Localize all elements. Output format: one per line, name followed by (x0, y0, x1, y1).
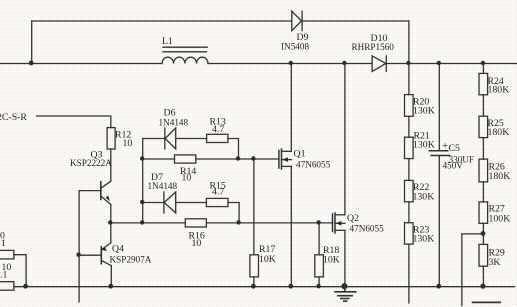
svg-text:10: 10 (182, 173, 192, 184)
svg-text:1N4148: 1N4148 (148, 181, 178, 191)
svg-text:KSP2222A: KSP2222A (70, 158, 112, 168)
junction dot emitters (108, 220, 112, 224)
resistor R27 (479, 202, 488, 223)
diode D6 1N4148 (165, 128, 176, 149)
wire D6 to R13 (176, 138, 207, 140)
resistor R25 (479, 116, 488, 137)
wire R20-R23 column verticals (408, 64, 410, 95)
svg-text:3K: 3K (489, 257, 501, 268)
wire R20-R21 (408, 116, 410, 137)
junction dot bottom rail Q4 collector (108, 284, 113, 289)
junction dot gate bus R15 drop (236, 220, 240, 224)
wire top freewheel loop horizontal left segment (32, 20, 292, 22)
resistor R13 (207, 134, 228, 142)
svg-text:47N6055: 47N6055 (350, 224, 385, 234)
resistor R29 (479, 244, 488, 266)
svg-text:47N6055: 47N6055 (296, 160, 331, 170)
wire R18 branch (318, 223, 320, 255)
wire main rail between L1 and D10 (208, 63, 372, 65)
junction dot mid wire R17 drop (251, 156, 255, 160)
junction dot gate bus R18 (316, 220, 320, 224)
junction dot tap R27-R29 (481, 231, 486, 236)
node C-S-R wire to R12 (37, 116, 111, 128)
resistor R16 (185, 219, 206, 227)
wire tap between R27 and R29 (462, 233, 484, 235)
svg-text:10: 10 (192, 238, 202, 249)
wire R12 to Q3 collector (110, 149, 112, 181)
ground symbol at Q2 source node (335, 287, 356, 301)
wire R17 branch from mid wire (253, 159, 255, 255)
wire gate bus y=222.4 right part (206, 222, 332, 224)
resistor R12 (107, 128, 115, 149)
wire R23 down past bottom rail (408, 244, 410, 303)
svg-text:Q1: Q1 (294, 149, 306, 160)
wire R24-R29 column (482, 64, 484, 74)
junction dot rail top-loop right (406, 61, 410, 65)
svg-text:180K: 180K (488, 85, 510, 96)
wire R22-R23 (408, 202, 410, 223)
svg-text:10: 10 (123, 138, 133, 149)
svg-text:1: 1 (1, 238, 6, 249)
junction dot Q4 base (76, 253, 80, 257)
transistor Q3 KSP2222A (79, 181, 111, 204)
svg-text:2C-S-R: 2C-S-R (0, 112, 27, 123)
wire R17 to bottom rail (253, 277, 255, 287)
svg-text:4.7: 4.7 (212, 124, 224, 135)
junction dot bottom rail R29 (480, 284, 485, 289)
wire R25-R26 (482, 138, 484, 160)
svg-text:IN5408: IN5408 (281, 42, 309, 52)
ground symbol bottom right (cropped) (473, 301, 501, 303)
wire node column x=142 (142, 139, 144, 223)
svg-text:130K: 130K (413, 106, 435, 117)
junction dot bottom rail R17 (251, 284, 256, 289)
svg-text:Q4: Q4 (112, 244, 124, 255)
wire R24-R25 (482, 95, 484, 116)
junction dot bottom rail R18 (316, 284, 320, 288)
wire Q4 collector to bottom rail (110, 266, 112, 287)
wire mid gate wire Q1 (143, 158, 175, 160)
inductor L1 (162, 47, 208, 63)
wire left resistor to bottom rail (14, 255, 26, 287)
wire top freewheel loop horizontal right segment (303, 20, 409, 22)
resistor R24 (479, 73, 488, 94)
wire top loop right vertical (408, 21, 410, 64)
svg-text:C5: C5 (449, 143, 461, 154)
junction dot rail C5 (437, 61, 441, 65)
svg-text:L1: L1 (162, 36, 173, 47)
resistor R14 (175, 155, 196, 163)
junction dot rail Q1 drain (289, 61, 293, 65)
svg-text:130K: 130K (413, 140, 435, 151)
wire R14 to Q1 gate (196, 158, 279, 160)
svg-text:130K: 130K (413, 234, 435, 245)
mosfet Q1 47N6055 (279, 64, 291, 287)
junction dot D7 branch left (140, 200, 144, 204)
diode D7 1N4148 (164, 192, 176, 213)
resistor left edge bottom (cropped) (0, 282, 14, 291)
wire R27-R29 (482, 223, 484, 244)
wire R13 to node (228, 139, 239, 160)
wire R21-R22 (408, 159, 410, 181)
svg-text:180K: 180K (489, 171, 511, 182)
svg-text:180K: 180K (488, 127, 510, 138)
wire R15 to gate bus (228, 203, 239, 223)
junction dot bottom rail left resistor (23, 284, 28, 289)
resistor R15 (206, 198, 228, 206)
transistor Q4 KSP2907A (79, 243, 111, 266)
wire bottom rail (14, 286, 515, 288)
svg-text:1N4148: 1N4148 (159, 118, 189, 128)
svg-text:Q2: Q2 (347, 213, 359, 224)
svg-text:100K: 100K (489, 214, 511, 225)
resistor R26 (479, 159, 488, 182)
resistor R18 (315, 255, 324, 277)
junction dot rail/top-loop left (29, 61, 34, 66)
diode D9 IN5408 (292, 11, 302, 31)
junction dot bottom rail Q1 source (288, 284, 293, 289)
junction dot mid wire left node (140, 156, 144, 160)
svg-text:130K: 130K (413, 192, 435, 203)
junction dot mid wire R13 drop (236, 156, 240, 160)
resistor R17 (250, 255, 259, 277)
svg-text:RHRP1560: RHRP1560 (352, 42, 395, 52)
svg-text:+: + (442, 140, 448, 152)
diode D10 RHRP1560 (372, 56, 386, 72)
wire Q3 emitter to Q4 emitter (110, 204, 112, 243)
wire D6 branch (143, 138, 165, 140)
wire base line Q3-Q4 going below (78, 191, 80, 302)
wire main rail right of D10 (386, 63, 517, 65)
wire R18 to bottom rail (318, 277, 320, 287)
junction dot gate bus left node (140, 220, 144, 224)
wire R29 to bottom rail (482, 266, 484, 287)
resistor R22 (405, 180, 414, 201)
wire tap vertical down (461, 234, 463, 306)
junction dot rail R24 (481, 61, 485, 65)
svg-text:10K: 10K (323, 255, 340, 266)
svg-text:4.7: 4.7 (212, 187, 224, 198)
wire R26-R27 (482, 182, 484, 202)
svg-text:.1: .1 (0, 270, 7, 281)
svg-text:KSP2907A: KSP2907A (110, 255, 152, 265)
svg-text:450V: 450V (443, 161, 464, 171)
resistor R21 (405, 137, 414, 158)
wire D7 branch (143, 202, 164, 204)
resistor R23 (405, 223, 414, 244)
wire D7 to R15 (176, 202, 207, 204)
wire gate bus y=222.4 left part (111, 222, 186, 224)
junction dot rail Q2 drain (342, 61, 346, 65)
wire main rail left of L1 (1, 63, 163, 65)
resistor left edge top (cropped) (0, 250, 14, 259)
junction dot bottom rail C5 (436, 284, 441, 289)
svg-text:10K: 10K (259, 254, 276, 265)
wire top loop left vertical (31, 21, 33, 64)
mosfet Q2 47N6055 (333, 64, 345, 287)
junction dot bottom rail ground node (341, 283, 347, 289)
resistor R20 (405, 95, 414, 117)
capacitor C5 330UF 450V (429, 64, 450, 287)
